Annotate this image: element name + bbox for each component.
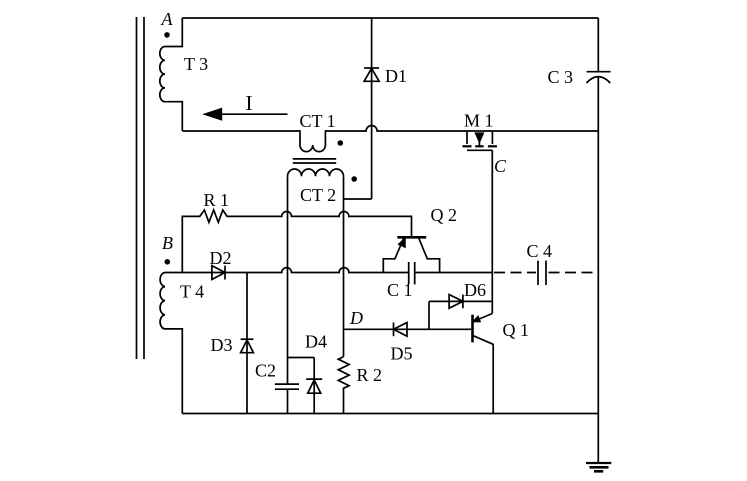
wire CT2 left terminal down to C2 xyxy=(287,176,289,384)
svg-text:D6: D6 xyxy=(464,280,486,300)
CT core bars xyxy=(293,159,336,163)
svg-text:D4: D4 xyxy=(305,332,327,352)
MOSFET M1 xyxy=(463,131,497,150)
wire right rail upper xyxy=(597,18,599,72)
ground xyxy=(586,463,611,471)
svg-text:CT 2: CT 2 xyxy=(300,185,336,205)
svg-text:I: I xyxy=(246,91,253,115)
wire CT2 to D1 connector xyxy=(344,198,372,200)
svg-text:C 3: C 3 xyxy=(548,67,574,87)
diode D6 xyxy=(449,295,463,309)
svg-text:Q 2: Q 2 xyxy=(431,205,458,225)
transistor Q2 xyxy=(383,237,439,272)
svg-text:C 4: C 4 xyxy=(527,241,553,261)
diode D3 xyxy=(241,273,254,414)
svg-text:C 1: C 1 xyxy=(387,280,413,300)
wire M1 row with CT1 dip and hop over D1 xyxy=(182,126,598,152)
diode D4 xyxy=(306,358,322,414)
resistor R2 xyxy=(338,357,349,414)
wire D6 row xyxy=(429,300,492,302)
CT2 dot xyxy=(351,176,357,182)
diode D2 xyxy=(212,266,225,280)
CT1 dot xyxy=(338,140,344,146)
wire C2 to D4 branch xyxy=(288,357,315,359)
svg-text:Q 1: Q 1 xyxy=(503,320,530,340)
svg-text:T 4: T 4 xyxy=(180,282,204,302)
node B dot xyxy=(165,259,171,265)
transformer core xyxy=(137,17,145,359)
current arrow I xyxy=(202,108,287,121)
wire node C vertical xyxy=(491,150,493,313)
transformer T4 winding xyxy=(160,273,182,414)
svg-text:T 3: T 3 xyxy=(184,54,208,74)
wire right rail lower xyxy=(597,77,599,463)
wire C4 dashed right xyxy=(549,272,599,274)
svg-text:D: D xyxy=(349,308,363,328)
wire bottom rail xyxy=(182,413,598,415)
svg-text:CT 1: CT 1 xyxy=(300,111,336,131)
diode D5 xyxy=(394,323,408,337)
wire CT2 right terminal down to R2 xyxy=(343,176,345,356)
node A dot xyxy=(164,32,170,38)
svg-text:D2: D2 xyxy=(210,248,232,268)
svg-text:R 2: R 2 xyxy=(357,365,383,385)
transformer CT2 winding xyxy=(288,169,344,176)
svg-text:A: A xyxy=(161,9,174,29)
svg-text:D3: D3 xyxy=(211,335,233,355)
capacitor C4 xyxy=(538,261,546,285)
wire B row xyxy=(165,268,492,273)
svg-text:M 1: M 1 xyxy=(464,111,494,131)
wire top rail xyxy=(182,17,598,19)
svg-text:R 1: R 1 xyxy=(204,190,230,210)
wire R1 row xyxy=(182,210,411,273)
capacitor C3 xyxy=(586,72,610,83)
capacitor C2 xyxy=(275,384,299,413)
wire D5 row xyxy=(344,328,473,330)
capacitor C1 xyxy=(409,262,415,284)
svg-text:C: C xyxy=(494,156,507,176)
wire C4 dashed left xyxy=(494,272,536,274)
svg-text:C2: C2 xyxy=(255,361,276,381)
svg-text:B: B xyxy=(162,233,173,253)
svg-text:D5: D5 xyxy=(391,344,413,364)
transistor Q1 xyxy=(473,314,494,414)
transformer T3 winding xyxy=(160,18,183,131)
svg-text:D1: D1 xyxy=(385,66,407,86)
diode D1 xyxy=(364,18,379,199)
wire D6 branch vertical xyxy=(428,301,430,329)
